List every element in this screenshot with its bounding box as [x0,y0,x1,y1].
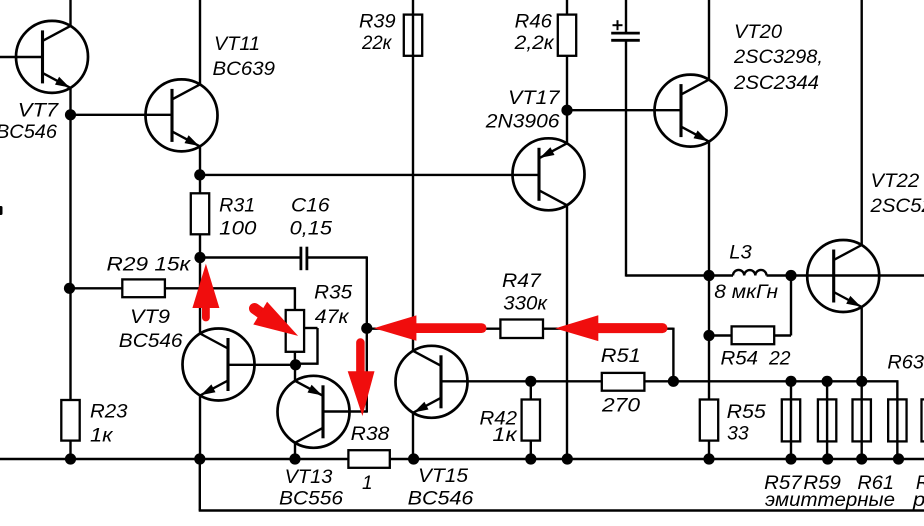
capacitor C16 [301,247,307,271]
red arrow up at node B [192,264,219,318]
svg-text:R47: R47 [502,271,542,292]
resistor R29 [122,279,165,297]
resistor R47 [500,320,543,339]
wire VT13 emitter up [294,365,296,382]
node VT11 emitter [194,169,205,180]
red arrow left at node F [374,315,482,340]
wire node E down to R54 corner [790,276,792,336]
svg-text:2SC2344: 2SC2344 [733,73,819,94]
svg-text:R54: R54 [721,348,759,369]
label R42 value [492,425,518,446]
resistor R38 [348,450,389,468]
svg-text:BC556: BC556 [279,488,343,509]
wire R47 to corner [543,328,673,330]
label VT17 type [485,112,560,133]
svg-text:резисторы: резисторы [912,490,924,511]
svg-text:R31: R31 [219,196,255,217]
wire R31 to node B [199,234,201,258]
wire R54 right corner [774,334,791,336]
node R61 top [856,376,867,387]
inductor L3 [733,270,767,276]
node VT9 emitter rail [194,453,205,464]
label R31 value [219,219,257,240]
wire R59 column [826,381,828,459]
wire R42 bottom [530,440,532,459]
svg-text:VT13: VT13 [285,467,333,488]
resistor R42 [522,400,540,441]
label R23 value [90,425,114,446]
wire VT7 base [0,56,43,58]
svg-text:BC546: BC546 [408,489,474,510]
wire node F down to VT13 base [366,329,368,413]
wire VT22 collector up [861,0,863,246]
label R65 partial [916,473,924,494]
label C16 [291,196,330,217]
resistor R63 [888,399,906,441]
transistor VT15 [396,346,468,418]
wire VT17 collector down [566,205,568,459]
label VT22 [871,171,920,192]
wire VT9 emitter down [199,395,201,459]
red arrow left at R47 [555,315,662,341]
label R39 [359,11,396,32]
wire VT20 emitter down [708,141,710,276]
transistor VT9 [183,329,255,401]
red arrow down at VT13 base [348,343,375,417]
label R54 [721,348,759,369]
wire VT11 emitter to VT17 base [200,174,539,176]
node C R46-VT17 [561,105,572,116]
svg-text:VT22: VT22 [871,171,920,192]
resistor R31 [191,193,209,234]
node R47 corner rail [668,376,679,387]
wire R29 to R35 corner [165,287,295,289]
wire R35 tap out [304,327,317,329]
label VT11 type [213,59,276,80]
label VT13 type [279,488,343,509]
node G R29 left [64,283,75,294]
svg-text:R63: R63 [887,353,924,374]
node R54 left [703,330,714,341]
wire R35 tap to node H [296,363,318,365]
label C16 value [290,219,333,240]
node D VT20 emitter [703,270,714,281]
node R59 top [822,376,833,387]
resistor R23 [61,400,79,441]
resistor R65 partial [922,399,924,441]
svg-text:2SC5200: 2SC5200 [869,196,924,217]
wire corner down to rail [672,328,674,382]
wire node F to R47 [367,328,501,330]
label VT13 [285,467,333,488]
wire R39 column [412,0,414,352]
wire bottom rail [0,458,924,460]
label VT9 [130,307,170,328]
label rezistory partial [912,490,924,511]
svg-text:1к: 1к [90,425,114,446]
wire VT11 collector up [199,0,201,85]
svg-text:1: 1 [362,473,373,494]
svg-text:C16: C16 [291,196,330,217]
node R55 bottom [703,453,714,464]
transistor VT17 [513,138,585,210]
wire R51 to rail end [644,380,861,382]
label L3 value [714,282,778,303]
label R35 [314,283,352,304]
svg-text:R38: R38 [351,424,390,445]
left edge mark [0,206,3,215]
label R51 value [601,396,641,417]
svg-text:VT15: VT15 [418,466,468,487]
label VT7 type [0,122,57,143]
wire R57 column [790,381,792,459]
svg-text:2N3906: 2N3906 [485,112,560,133]
label R63 [887,353,924,374]
label R29 [107,254,192,275]
svg-text:VT20: VT20 [734,22,782,43]
label R35 value [315,307,350,328]
label L3 [729,242,752,263]
label VT20 type b [733,73,819,94]
label R59 [803,473,841,494]
label R47 value [503,293,548,314]
node H R35 bottom [290,359,301,370]
svg-text:BC639: BC639 [213,59,276,80]
wire R23 bottom [69,440,71,459]
label VT20 type a [733,47,823,68]
svg-text:эмиттерные: эмиттерные [765,490,895,511]
svg-text:R55: R55 [727,402,767,423]
node R59 bottom [822,453,833,464]
node VT17 collector rail [562,453,573,464]
svg-text:VT9: VT9 [130,307,170,328]
label R31 [219,196,255,217]
wire VT20 collector up [708,0,710,80]
wire node A to R31 [199,175,201,193]
wire VT7 emitter down [69,87,71,401]
svg-text:BC546: BC546 [0,122,57,143]
svg-text:22: 22 [768,348,791,369]
label VT22 type [869,196,924,217]
node F C16-R47 [361,323,372,334]
node R61 bottom [856,453,867,464]
wire VT22 emitter down [861,306,863,459]
label R38 [351,424,390,445]
svg-text:1к: 1к [492,425,518,446]
label R47 [502,271,542,292]
svg-text:R39: R39 [359,11,396,32]
resistor R35 trimmer [286,310,304,352]
svg-text:22к: 22к [361,33,392,54]
wire node D down [708,276,710,460]
label R55 [727,402,767,423]
label VT17 [508,88,561,109]
label R57 [764,473,803,494]
label R46 [515,11,553,32]
svg-text:0,15: 0,15 [290,219,333,240]
node VT13 collector rail [289,453,300,464]
node R57 bottom [785,453,796,464]
svg-text:R29 15к: R29 15к [107,254,192,275]
transistor VT11 [146,79,218,151]
wire corner down to node F [366,256,368,329]
wire node B to C16 [200,256,301,258]
wire VT13 collector down [294,442,296,459]
wire R42 top [530,381,532,400]
wire node B down to VT9 collector [199,258,201,335]
label emitternye [765,490,895,511]
label R39 value [361,33,392,54]
resistor R57 [782,399,800,441]
svg-text:L3: L3 [729,242,752,263]
wire R46 top [566,0,568,110]
wire R35 tap down [316,328,318,365]
wire R63 top corner [896,381,898,459]
wire corner to node D [626,274,733,276]
wire node C to VT17 emitter [566,110,568,144]
svg-text:VT17: VT17 [508,88,561,109]
svg-text:VT11: VT11 [214,34,260,55]
wire VT7 collector up [69,0,71,27]
label VT7 [18,100,60,121]
label R54 value [768,348,791,369]
label VT11 [214,34,260,55]
label R42 [480,408,518,429]
red arrow diagonal at R35 [253,302,298,336]
node R42 top [525,376,536,387]
svg-text:R51: R51 [601,346,641,367]
svg-text:330к: 330к [503,293,548,314]
wire VT15 base rail [441,380,602,382]
wire VT13 base [323,410,367,412]
svg-text:VT7: VT7 [18,100,60,121]
resistor R46 [558,15,576,56]
svg-text:2SC3298,: 2SC3298, [733,47,823,68]
node R63 bottom [893,453,904,464]
svg-text:47к: 47к [315,307,350,328]
label R38 value [362,473,373,494]
wire frame corner down [199,459,201,511]
node R42 bottom [525,453,536,464]
node B R31 bottom [194,252,205,263]
resistor R51 [602,373,645,391]
label R46 value [514,33,555,54]
wire corner down to R35 [294,287,296,310]
svg-text:270: 270 [601,396,641,417]
svg-text:R46: R46 [515,11,553,32]
resistor R39 [404,15,422,56]
label VT15 type [408,489,474,510]
transistor VT22 [807,240,879,312]
resistor R55 [700,400,718,441]
wire C18 top [625,0,627,32]
svg-text:2,2к: 2,2к [514,33,555,54]
resistor R59 [818,399,836,441]
label R51 [601,346,641,367]
wire node G to R29 [70,287,123,289]
svg-text:R23: R23 [90,402,128,423]
svg-text:8 мкГн: 8 мкГн [714,282,778,303]
label VT20 [734,22,782,43]
node R57 top [785,376,796,387]
wire R54 left [709,334,732,336]
wire VT11 emitter down [199,146,201,175]
wire node C to VT20 base [567,109,681,111]
svg-text:R35: R35 [314,283,352,304]
node VT15 emitter rail [408,453,419,464]
transistor VT20 [655,75,727,147]
svg-text:BC546: BC546 [119,331,183,352]
node VT7-VT11 base [65,109,76,120]
label R55 value [727,424,749,445]
capacitor C18 electrolytic [611,20,640,40]
node R23 bottom [65,453,76,464]
wire frame bottom [199,509,924,511]
wire C18 bottom to corner [625,41,627,277]
wire R35 bottom [294,352,296,365]
wire C16 to corner [307,256,367,258]
label R23 [90,402,128,423]
wire VT9 base [228,364,296,366]
wire rail end to R63 [862,380,899,382]
svg-text:100: 100 [219,219,257,240]
wire L3 right to VT22 base [767,274,924,276]
label VT9 type [119,331,183,352]
resistor R61 [853,399,871,441]
wire VT15 emitter down [412,413,414,460]
svg-text:33: 33 [727,424,749,445]
label VT15 [418,466,468,487]
label R61 [857,473,894,494]
node E L3 right [785,270,796,281]
wire VT7 emitter to VT11 base [71,114,173,116]
transistor VT7 [16,21,88,93]
transistor VT13 [278,376,350,448]
resistor R54 [732,326,775,344]
